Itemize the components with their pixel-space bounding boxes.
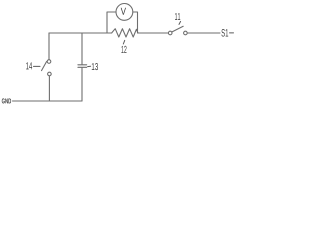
switch 14 lower contact circle: [48, 72, 52, 76]
wire capacitor branch lower: [81, 68, 83, 101]
wire main horizontal to switch 11: [138, 32, 168, 34]
switch 11 right contact circle: [184, 31, 188, 35]
wire left branch vertical lower (switch 14 to bottom): [48, 76, 50, 101]
wire voltmeter right riser: [133, 12, 138, 33]
label V in voltmeter: [121, 8, 126, 15]
switch 11 left contact circle: [168, 31, 172, 35]
leader line for label 11: [179, 21, 181, 24]
wire capacitor branch upper: [81, 33, 83, 64]
switch 11 blade: [172, 26, 183, 32]
label S1: [221, 29, 228, 37]
resistor R 12 zigzag: [112, 29, 138, 37]
wire bottom horizontal (GND rail): [13, 100, 83, 102]
leader dash for label 14: [34, 65, 41, 67]
label 13: [92, 63, 98, 70]
label GND: [2, 98, 11, 103]
wire main horizontal from switch 11 to S1: [187, 32, 220, 34]
leader dash for label 13: [88, 65, 91, 67]
wire left branch vertical upper (to switch 14): [48, 33, 50, 60]
switch 14 upper contact circle: [47, 60, 51, 64]
switch 14 blade: [42, 62, 47, 71]
label 12: [121, 46, 126, 53]
capacitor C 13 top plate: [78, 64, 87, 66]
label 14: [26, 62, 32, 69]
dash after S1: [230, 32, 234, 34]
leader line for label 12: [123, 40, 124, 44]
wire main horizontal left segment: [49, 32, 112, 34]
wire voltmeter left riser: [107, 12, 116, 33]
label 11: [175, 13, 180, 20]
capacitor C 13 bottom plate: [78, 66, 87, 68]
voltmeter U V circle: [116, 4, 133, 21]
